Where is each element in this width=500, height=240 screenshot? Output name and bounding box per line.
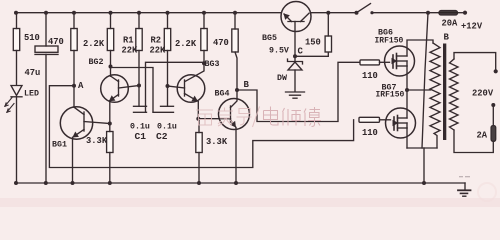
transistor BG1: [60, 107, 110, 183]
svg-text:2.2K: 2.2K: [175, 39, 197, 49]
transformer B primary winding: [430, 43, 440, 148]
transistor BG4: [219, 90, 250, 183]
svg-text:470: 470: [48, 37, 64, 47]
svg-text:2.2K: 2.2K: [83, 39, 105, 49]
svg-text:BG4: BG4: [215, 90, 230, 99]
node top rail 47u: [44, 11, 48, 15]
svg-text:220V: 220V: [472, 89, 494, 99]
svg-text:110: 110: [362, 128, 378, 138]
watermark ghost circle bottom right: [478, 183, 496, 201]
svg-text:IRF150: IRF150: [376, 91, 405, 100]
node BG3 base / R2 / C2: [166, 84, 170, 88]
wire top rail BG5 to switch segment: [311, 12, 357, 14]
resistor 3.3K left: [107, 124, 113, 184]
node top rail 150: [326, 11, 330, 15]
svg-text:470: 470: [213, 38, 229, 48]
svg-text:9.5V: 9.5V: [269, 47, 289, 56]
switch S: [355, 4, 374, 15]
node 220V lower terminal: [491, 103, 495, 107]
capacitor C2: [153, 106, 174, 112]
wire BG3 emitter to BG4 base: [198, 118, 230, 120]
transistor BG3: [168, 63, 205, 118]
node bottom rail BG4 emitter: [234, 181, 238, 185]
resistor R1 22K: [136, 13, 142, 107]
svg-text:BG5: BG5: [262, 34, 277, 43]
wire secondary top to 220V terminal: [454, 53, 496, 72]
wire bottom ground rail: [16, 182, 465, 184]
node top rail R1: [137, 11, 141, 15]
wire node A long route to gate resistor of BG7: [49, 86, 353, 168]
node 220V upper terminal: [494, 69, 498, 73]
wire secondary bottom to fuse 2A: [454, 130, 493, 153]
svg-text:B: B: [444, 33, 450, 43]
svg-text:510: 510: [24, 33, 40, 43]
svg-text:22K: 22K: [122, 46, 139, 56]
svg-text:150: 150: [305, 38, 321, 48]
node bottom rail 47u: [44, 181, 48, 185]
LED: [5, 86, 22, 184]
wire +12V rail to primary circuit: [422, 13, 428, 148]
resistor 110 lower: [359, 117, 380, 122]
resistor 150: [325, 13, 331, 52]
capacitor 47u: [35, 13, 58, 183]
svg-text:C2: C2: [156, 131, 168, 142]
node top rail 2.2K left: [109, 11, 113, 15]
svg-text:47u: 47u: [25, 68, 41, 78]
svg-text:R2: R2: [151, 36, 162, 46]
svg-text:C: C: [298, 47, 304, 57]
svg-text:20A: 20A: [442, 19, 459, 29]
wire bottom node horizontal: [407, 147, 437, 149]
resistor 3.3K right: [196, 119, 202, 183]
wire BG6 source to BG7 drain and center tap: [405, 66, 431, 118]
svg-text:LED: LED: [24, 90, 39, 99]
fuse 2A: [491, 105, 496, 141]
svg-text:A: A: [78, 81, 84, 91]
node BG3 emitter / BG4 base: [196, 117, 200, 121]
svg-text:3.3K: 3.3K: [86, 136, 108, 146]
MOSFET BG6 IRF150: [385, 46, 415, 76]
wire bottom node to ground rail: [423, 148, 425, 183]
wire BG6 drain to transformer primary top: [407, 40, 433, 56]
node B: [235, 88, 239, 92]
svg-text:BG2: BG2: [89, 58, 104, 67]
node +12V terminal: [463, 11, 467, 15]
resistor R2 22K: [164, 13, 170, 107]
svg-text:B: B: [244, 80, 250, 90]
wire node C to resistor 150: [295, 52, 328, 56]
svg-text:BG3: BG3: [205, 60, 220, 69]
wire node A to BG1 collector: [73, 86, 75, 108]
svg-text:IRF150: IRF150: [375, 37, 404, 46]
svg-text:110: 110: [362, 71, 378, 81]
node bottom rail 3.3K left: [108, 181, 112, 185]
wire BG7 source to bottom node: [406, 128, 408, 148]
node top rail 470: [72, 11, 76, 15]
wire top rail switch-to-fuse segment: [372, 12, 439, 14]
zener diode DW: [288, 59, 303, 91]
resistor 510: [13, 13, 19, 85]
wire 110 to BG6 gate: [380, 61, 390, 63]
svg-text:DW: DW: [277, 74, 287, 83]
node BG2 emitter junction: [108, 122, 112, 126]
transistor BG5: [281, 2, 311, 62]
node bottom rail junction: [422, 181, 426, 185]
node bottom rail BG1 emitter: [71, 181, 75, 185]
wire 110 to BG7 gate: [380, 119, 391, 121]
wire C1 bottom plate to BG3 collector: [146, 62, 205, 112]
transistor BG2: [101, 75, 139, 124]
resistor 110 upper: [360, 60, 380, 65]
transformer core: [443, 44, 446, 141]
tiny gray marks above ground: [459, 176, 470, 178]
watermark text row: [196, 107, 260, 128]
ground chassis at bottom rail end: [458, 183, 471, 196]
wire node B to gate resistor of BG6: [237, 62, 361, 121]
wire top rail fuse-to-terminal segment: [458, 12, 466, 14]
wire BG2 collector to C2 bottom plate: [111, 68, 154, 112]
node C: [293, 54, 297, 58]
svg-text:BG1: BG1: [52, 141, 67, 150]
resistor 470: [71, 13, 77, 86]
capacitor C1: [134, 106, 147, 112]
node rail drop: [426, 11, 430, 15]
node A: [72, 84, 76, 88]
resistor 2.2K left: [107, 13, 113, 76]
node BG2 collector: [109, 65, 113, 69]
ground below zener: [286, 92, 305, 98]
resistor 2.2K right: [201, 13, 207, 64]
wire top +V rail left segment: [16, 12, 281, 14]
transformer B secondary winding: [450, 59, 459, 130]
svg-text:3.3K: 3.3K: [206, 137, 228, 147]
fuse 20A: [439, 11, 458, 15]
node bottom rail LED: [14, 181, 18, 185]
resistor 470 right: [232, 13, 238, 90]
svg-text:+12V: +12V: [461, 22, 483, 32]
node top rail 510: [14, 11, 18, 15]
node top rail 2.2K right: [202, 11, 206, 15]
node BG3 collector: [202, 61, 206, 65]
svg-text:C1: C1: [135, 131, 147, 142]
node bottom rail 3.3K right: [197, 181, 201, 185]
MOSFET BG7 IRF150: [386, 108, 416, 138]
node top rail 470 right: [233, 11, 237, 15]
node BG2 base / R1 / C1: [137, 84, 141, 88]
svg-text:R1: R1: [123, 36, 134, 46]
svg-text:2A: 2A: [477, 131, 488, 141]
node top rail R2: [166, 11, 170, 15]
svg-text:22K: 22K: [150, 46, 167, 56]
